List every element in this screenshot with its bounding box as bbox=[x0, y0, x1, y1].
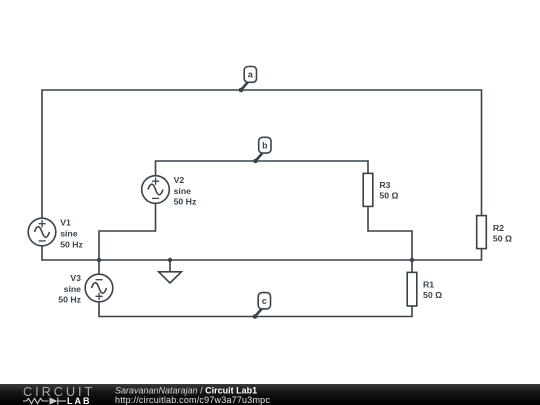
wire R3 bottom to bus bbox=[368, 206, 412, 260]
footer logo resistor-diode glyph bbox=[23, 397, 66, 404]
svg-text:sine: sine bbox=[174, 186, 192, 196]
label V2 bbox=[174, 175, 197, 207]
node flag b bbox=[253, 137, 271, 163]
resistor R1 bbox=[407, 272, 417, 306]
wire R1 top bbox=[411, 260, 413, 272]
svg-text:V1: V1 bbox=[60, 217, 71, 227]
svg-text:b: b bbox=[262, 140, 268, 150]
resistor R3 bbox=[363, 173, 373, 206]
svg-text:50 Ω: 50 Ω bbox=[423, 290, 442, 300]
svg-text:SaravananNatarajan / Circuit L: SaravananNatarajan / Circuit Lab1 bbox=[115, 385, 257, 395]
ground bbox=[169, 260, 171, 272]
wire V3 top bbox=[98, 260, 100, 274]
svg-text:a: a bbox=[248, 70, 253, 80]
svg-text:50 Hz: 50 Hz bbox=[60, 239, 83, 249]
wire V2 bottom to bus bbox=[99, 203, 156, 260]
label R1 bbox=[423, 279, 442, 300]
voltage source V2 bbox=[142, 176, 170, 204]
wire top loop: V1 top to R2 top bbox=[42, 90, 482, 218]
svg-text:R2: R2 bbox=[493, 223, 504, 233]
svg-text:50 Hz: 50 Hz bbox=[174, 197, 197, 207]
svg-text:50 Hz: 50 Hz bbox=[58, 295, 81, 305]
node flag c bbox=[253, 293, 271, 319]
voltage source V1 bbox=[28, 218, 56, 246]
svg-text:R3: R3 bbox=[379, 180, 390, 190]
svg-text:R1: R1 bbox=[423, 279, 434, 289]
svg-text:LAB: LAB bbox=[67, 396, 92, 405]
node V3/bus junction bbox=[97, 258, 101, 262]
junction node dots bbox=[97, 258, 414, 262]
node ground junction bbox=[168, 258, 172, 262]
svg-text:V3: V3 bbox=[70, 273, 81, 283]
svg-text:50 Ω: 50 Ω bbox=[379, 191, 398, 201]
resistor R2 bbox=[477, 216, 487, 249]
wire c net: V3 bottom to R1 bottom bbox=[99, 302, 412, 317]
svg-text:V2: V2 bbox=[174, 175, 185, 185]
svg-text:50 Ω: 50 Ω bbox=[493, 234, 512, 244]
label V1 bbox=[60, 217, 83, 249]
svg-text:c: c bbox=[262, 296, 267, 306]
svg-text:sine: sine bbox=[64, 284, 82, 294]
label R3 bbox=[379, 180, 398, 201]
wire b net: V2 top to R3 top bbox=[156, 161, 369, 176]
svg-text:http://circuitlab.com/c97w3a77: http://circuitlab.com/c97w3a77u3mpc bbox=[115, 395, 270, 405]
node R1/bus junction bbox=[410, 258, 414, 262]
voltage source V3 (inverted: minus top, plus bottom) bbox=[85, 274, 113, 302]
label R2 bbox=[493, 223, 512, 244]
wire bottom bus: V1 bottom to R2 bottom bbox=[42, 246, 482, 260]
node flag a bbox=[239, 67, 257, 93]
footer bar bbox=[0, 384, 540, 405]
svg-text:sine: sine bbox=[60, 229, 78, 239]
label V3 bbox=[58, 273, 81, 305]
